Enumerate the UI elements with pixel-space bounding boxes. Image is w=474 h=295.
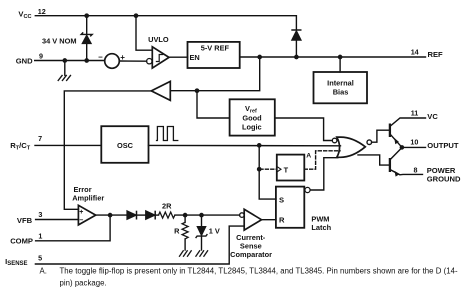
wire between diodes — [137, 214, 146, 216]
svg-text:Comparator: Comparator — [230, 250, 272, 259]
svg-text:+: + — [79, 209, 83, 216]
svg-text:OUTPUT: OUTPUT — [427, 141, 459, 150]
svg-text:REF: REF — [428, 50, 444, 59]
svg-text:8: 8 — [414, 165, 418, 174]
wire Vref good logic output to NOR top input — [275, 118, 333, 141]
wire ground stub — [64, 61, 66, 76]
diode REF clamp — [291, 30, 301, 40]
svg-text:GND: GND — [16, 56, 33, 65]
svg-text:The toggle flip-flop is presen: The toggle flip-flop is present only in … — [60, 266, 458, 275]
ground symbol below R — [179, 250, 192, 256]
block 5-V REF U-REG — [188, 42, 240, 68]
svg-text:A.: A. — [40, 266, 47, 275]
svg-text:UVLO: UVLO — [148, 35, 169, 44]
diode D3 after error amp — [146, 211, 156, 220]
wire upper transistor collector to VC pin 11 — [391, 118, 426, 126]
svg-text:Bias: Bias — [333, 88, 349, 97]
gate NOR output — [332, 137, 371, 157]
wire VFB pin 3 to error amp inverting input — [36, 219, 79, 221]
svg-text:VFB: VFB — [17, 216, 33, 225]
resistor R — [182, 222, 188, 238]
source circle UVLO threshold — [105, 54, 120, 69]
wire OUTPUT pin 10 — [402, 146, 426, 148]
zener diode 34 V NOM — [81, 32, 92, 43]
svg-text:COMP: COMP — [10, 236, 33, 245]
svg-text:pin) package.: pin) package. — [60, 278, 107, 287]
wire ISENSE pin 5 to comparator lower input — [35, 226, 244, 264]
wire diode to 2R resistor — [155, 214, 158, 216]
wire 2R to comparator bubble — [175, 214, 240, 216]
wire lower transistor collector to output node — [391, 148, 402, 160]
transistor Q2 lower npn — [390, 158, 400, 177]
wire 1V zener bottom lead — [201, 236, 203, 250]
svg-text:14: 14 — [411, 47, 419, 56]
wire zener top lead — [86, 16, 88, 35]
wire R resistor top lead — [184, 215, 186, 222]
wire OSC output to NOR middle input — [149, 144, 341, 146]
wire zener bottom lead — [86, 44, 88, 61]
op-amp UVLO comparator — [147, 47, 169, 68]
wire COMP pin 1 to error amp output — [36, 215, 111, 241]
wire NOR lower tap to lower transistor base — [358, 155, 389, 165]
svg-text:7: 7 — [38, 134, 42, 143]
block toggle flip-flop T — [277, 155, 305, 181]
svg-text:Internal: Internal — [327, 79, 354, 88]
wire upper transistor emitter to output node — [391, 135, 402, 148]
svg-text:VC: VC — [427, 112, 438, 121]
block Vref Good Logic — [230, 99, 275, 135]
clock pulse symbol — [156, 127, 179, 141]
ground symbol at GND pin — [58, 75, 71, 81]
wire internal bias stub — [339, 57, 341, 72]
wire VCC clamp diode bottom lead — [295, 40, 297, 57]
svg-text:Sense: Sense — [240, 241, 262, 250]
svg-text:Good: Good — [242, 113, 262, 122]
wire buffer output to error amp noninverting input — [64, 91, 151, 209]
svg-text:EN: EN — [190, 53, 200, 62]
wire trunk OSC line down to latch S input — [259, 145, 276, 199]
svg-text:11: 11 — [411, 108, 419, 117]
svg-text:S: S — [279, 196, 284, 205]
svg-text:Latch: Latch — [311, 223, 331, 232]
wire dashed trunk to T flip-flop input — [260, 168, 277, 170]
wire lower transistor emitter to power ground pin 8 — [391, 170, 423, 175]
wire branch to Vref good logic input — [197, 91, 230, 118]
op-amp error amplifier — [78, 205, 95, 225]
svg-text:–: – — [79, 217, 83, 224]
svg-text:GROUND: GROUND — [427, 175, 461, 184]
svg-text:R: R — [279, 216, 285, 225]
transistor Q1 upper npn — [390, 124, 399, 145]
svg-text:OSC: OSC — [117, 141, 134, 150]
wire GND pin 9 line — [35, 60, 105, 62]
svg-text:Logic: Logic — [242, 122, 262, 131]
wire NOR bubble output to upper transistor base — [372, 130, 390, 142]
svg-text:9: 9 — [39, 51, 43, 60]
wire error amp output to diode — [96, 214, 127, 216]
svg-text:–: – — [98, 52, 103, 61]
svg-text:A: A — [306, 153, 311, 160]
svg-text:10: 10 — [410, 137, 418, 146]
op-amp current sense comparator — [240, 209, 262, 230]
ground symbol below 1 V zener — [196, 250, 209, 256]
svg-text:2R: 2R — [162, 202, 172, 211]
wire 1V zener top lead — [201, 215, 203, 226]
svg-text:R: R — [174, 226, 180, 235]
buffer amplifier (left pointing) — [151, 81, 170, 100]
wire UVLO output to 5-V REF EN — [169, 56, 188, 58]
diode D2 after error amp — [127, 211, 137, 220]
wire dashed T flip-flop output to node A — [304, 151, 340, 169]
block OSC — [101, 126, 148, 163]
wire VCC branch to UVLO top input — [136, 16, 152, 51]
zener diode 1 V — [196, 227, 208, 239]
wire comparator output to latch R input — [262, 219, 276, 221]
svg-text:1 V: 1 V — [209, 226, 220, 235]
wire REF rail to pin 14 — [240, 56, 426, 58]
svg-text:12: 12 — [38, 7, 46, 16]
block PWM latch — [276, 187, 310, 228]
svg-text:+: + — [120, 53, 125, 62]
block Internal Bias — [314, 72, 368, 103]
wire source circle to UVLO bubble — [119, 60, 146, 62]
resistor 2R — [159, 212, 175, 218]
svg-text:5-V REF: 5-V REF — [201, 43, 230, 52]
wire VCC pin 12 top rail — [35, 16, 296, 30]
wire RT/CT pin 7 to OSC — [35, 144, 101, 146]
svg-text:34 V NOM: 34 V NOM — [42, 36, 77, 45]
svg-text:Amplifier: Amplifier — [72, 193, 104, 202]
svg-text:1: 1 — [38, 232, 42, 241]
wire latch output to NOR bottom input — [310, 158, 338, 190]
svg-text:T: T — [284, 166, 289, 175]
wire REF to buffer input — [170, 57, 259, 91]
svg-text:3: 3 — [38, 210, 42, 219]
wire R resistor bottom lead — [184, 239, 186, 250]
svg-text:5: 5 — [38, 254, 42, 263]
